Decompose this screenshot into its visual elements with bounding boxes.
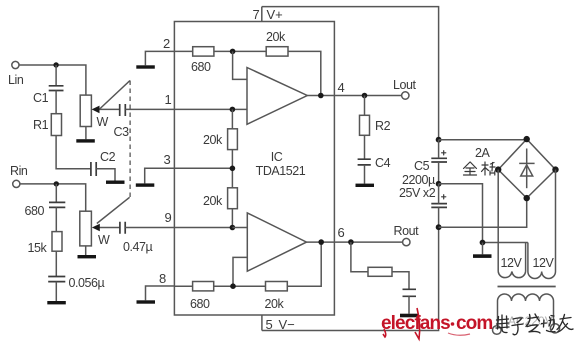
wire zobel R to C [392,272,409,289]
ground center tap [473,254,492,258]
svg-text:680: 680 [191,60,211,74]
svg-text:680: 680 [25,204,45,218]
wire node to cap680 [55,184,57,202]
op-amp A1 [247,68,307,125]
wire pot2 to ground [85,246,87,255]
ground pin3 [136,183,155,186]
wire 0.47u to pin9 [125,227,232,229]
node output1 [318,93,324,99]
wire 680 to node [214,50,266,52]
node pin1 [230,107,236,113]
node feedback1 [230,49,236,55]
svg-text:TDA1521: TDA1521 [256,164,306,178]
svg-text:Rout: Rout [394,224,420,238]
transformer secondary right 12V [528,243,556,279]
switch linkage dashed [129,81,131,198]
svg-text:6: 6 [338,225,345,240]
node C5 top [436,137,442,143]
pin 7 V+ stub [253,7,283,22]
wire zobel C to ground [408,296,410,313]
capacitor C3 [114,104,130,139]
wire pin1 node to 20k [231,109,233,128]
ground C4 [356,184,375,187]
node output2 [318,239,324,245]
svg-text:C5: C5 [414,159,430,173]
wire 680 to node pin8 [214,285,266,287]
svg-text:20k: 20k [265,297,285,311]
IC U1 TDA1521 box outline [174,22,334,316]
IC label [256,150,306,178]
svg-text:20k: 20k [266,30,286,44]
svg-text:IC: IC [271,150,283,164]
wire pin4 node to R2 [364,96,366,116]
wire V+ node to bridge top [439,138,527,141]
pin 8 wire and ground [146,286,175,300]
svg-text:7: 7 [253,7,260,22]
wire bridge left to winding [497,170,499,272]
wire 20k to pin9 node [231,209,233,228]
ground 0.056u [47,301,66,304]
wire ct to ground [482,243,484,255]
terminal Lout [393,78,417,99]
potentiometer RP2 [80,211,120,247]
watermark elecfans.com [381,308,492,339]
op-amp A2 [247,213,306,271]
C5 value labels [399,159,436,200]
bridge label quanqiao [464,162,496,175]
wire R1 to C2 row [56,136,91,169]
node pin4 [362,93,368,99]
wire C4 to ground [364,165,366,184]
wire 20k up to output2 [287,242,321,286]
resistor 20k mid2 [203,188,237,209]
node pin3 [230,166,236,172]
capacitor zobel [403,289,417,296]
pin 2 wire and ground [145,51,174,65]
svg-text:C1: C1 [33,91,49,105]
wire 20k to pin3 node [231,150,233,188]
capacitor 0.056u [48,276,104,290]
wire primary left lead [497,301,499,326]
wire C1 to R1 [55,91,57,114]
wire C5b [438,184,440,227]
node C5 bottom [436,224,442,230]
wire pin1 node to opamp [232,108,247,110]
wire C5a [438,140,440,184]
resistor 20k fb2 [265,282,288,312]
bridge rectifier 2A [495,136,559,201]
capacitor C5b [431,195,447,208]
wire Lin to pot1 top [19,65,86,95]
capacitor 680 input [25,202,66,218]
resistor 20k mid1 [203,129,237,150]
resistor zobel [368,267,392,276]
svg-text:W: W [98,233,110,247]
svg-text:12V: 12V [533,256,555,270]
wire C2 to ground [96,169,115,181]
wire R2 to C4 [364,135,366,159]
potentiometer RP1 [80,95,120,129]
svg-text:8: 8 [159,271,166,286]
wire pin9 to opamp2 [232,227,247,229]
wire pin6 to zobel resistor [351,242,368,272]
svg-text:680: 680 [190,297,210,311]
capacitor C5a [431,151,447,162]
node pin6 [348,239,354,245]
node pin8 [230,283,236,289]
wire opamp2 output [307,241,335,243]
terminal Rout [394,224,420,246]
svg-text:20k: 20k [203,133,223,147]
svg-text:0.47µ: 0.47µ [123,240,153,254]
resistor 15k [28,232,63,255]
pin 3 wire and ground [145,168,233,183]
pin 6 wire [335,241,403,243]
svg-text:com: com [456,313,492,334]
svg-text:Rin: Rin [10,164,28,178]
wire node to C1 [55,65,57,85]
capacitor C1 [33,86,64,105]
terminal AC right [550,324,559,333]
resistor R2 [360,115,391,135]
resistor 20k fb1 [266,30,288,56]
pin 4 wire [335,95,402,97]
svg-text:1: 1 [165,92,172,107]
ground pot2 [78,255,97,258]
node Rin junction [54,181,59,186]
transformer primary winding [498,294,554,301]
node C5 mid [436,181,442,187]
svg-text:2A: 2A [475,146,491,160]
terminal Rin [10,164,28,187]
svg-text:25V x2: 25V x2 [399,186,436,200]
svg-text:V+: V+ [267,7,283,22]
capacitor C2 [91,150,116,176]
wire C3 to pin1 [125,108,232,110]
svg-text:20k: 20k [203,194,223,208]
svg-text:2200µ: 2200µ [402,173,435,187]
ground C2 [106,181,125,184]
svg-text:0.056µ: 0.056µ [69,276,105,290]
switch lever S1a [100,81,130,110]
wire V+ rail [262,7,439,140]
node center tap [480,240,486,246]
node Lin junction [53,62,58,67]
ground pin2 [136,65,155,68]
svg-text:2: 2 [163,36,170,51]
svg-text:C4: C4 [375,156,391,170]
ground pin8 [137,300,156,303]
terminal AC left [493,326,502,335]
wire cap to ground [55,282,57,301]
ground zobel [400,314,418,318]
wire pin8 internal [174,285,192,287]
ground pot1 [76,139,95,142]
capacitor C4 [358,156,391,170]
transformer core [498,286,556,288]
resistor 680 top [191,47,214,74]
wire pot1 to ground [85,127,87,140]
wire feedback2 into opamp2 [233,257,247,286]
svg-text:3: 3 [164,152,171,167]
svg-text:Lout: Lout [393,78,417,92]
svg-text:4: 4 [338,80,345,95]
transformer secondary left 12V [498,243,525,278]
wire 15k to cap0.056 [55,251,57,276]
pin 5 V- stub [262,315,295,332]
wire Rin to pot2 [20,184,86,211]
svg-text:elecfans: elecfans [381,313,450,334]
resistor R1 [33,114,62,136]
wire bridge right to winding [555,170,557,272]
svg-text:9: 9 [165,210,172,225]
wire V- rail [262,227,439,330]
svg-text:W: W [97,115,109,129]
svg-text:Lin: Lin [8,73,24,87]
capacitor 0.47u [120,222,153,254]
watermark dianzifashaoyou [496,314,573,335]
svg-text:R2: R2 [375,119,391,133]
node pin9 [230,225,236,231]
wire feedback down into opamp1 [233,51,247,79]
resistor 680 bottom [190,282,214,312]
wire pin2 internal [174,50,192,52]
wire center tap [439,184,528,243]
wire primary right lead [553,301,555,324]
svg-text:R1: R1 [33,118,49,132]
svg-text:15k: 15k [28,241,48,255]
terminal Lin [8,61,24,87]
svg-text:12V: 12V [501,256,523,270]
wire opamp1 output [307,95,334,97]
wire cap680 to 15k [55,207,57,231]
svg-text:C2: C2 [100,150,116,164]
wire 20k to output [288,51,321,95]
wire V- node to bridge bottom [439,198,527,227]
svg-text:C3: C3 [114,125,130,139]
switch lever S1b [97,197,130,223]
